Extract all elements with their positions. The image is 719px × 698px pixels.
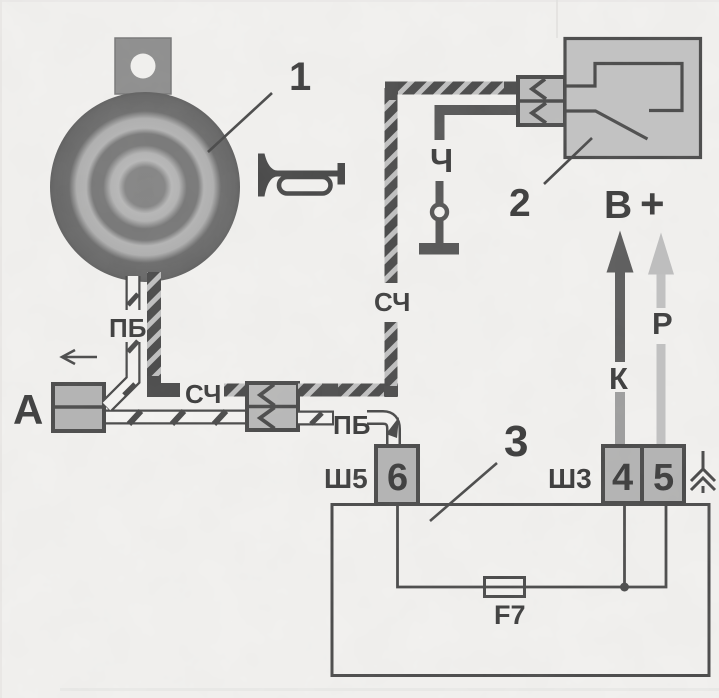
label 3 pointer line [430, 463, 497, 521]
switch moving contact line [565, 111, 648, 139]
wire СЧ vertical from horn [147, 272, 161, 383]
branch symbol (to other circuits) [691, 451, 715, 493]
label 2 pointer line [544, 138, 592, 184]
switch box 2 [565, 39, 701, 158]
scan edge left [0, 0, 2, 698]
wire СЧ corner + stub right [147, 376, 180, 390]
scan crease top right [556, 0, 558, 38]
wire СЧ riser lower [385, 322, 398, 386]
wire ПБ from A to middle connector [104, 341, 247, 424]
ground bolt circle [432, 205, 447, 220]
wire ПБ elbow to A (dark outline pass) [106, 342, 133, 407]
scan streak bottom [60, 688, 719, 691]
junction dot [620, 583, 629, 592]
horn icon [258, 154, 345, 197]
scan edge top [0, 0, 719, 2]
wire СЧ riser upper [385, 88, 398, 283]
pin 6 block [376, 446, 418, 504]
mounting block box 3 [332, 505, 709, 676]
fuse F7 [485, 578, 525, 597]
switch fixed contact line [565, 64, 682, 111]
wire Ч from switch connector [440, 110, 519, 140]
wire ПБ from middle connector to pin 6 [298, 413, 334, 424]
inner wire from fuse to pins 4/5 [524, 506, 666, 587]
wire ПБ hook into pin 6 [367, 417, 399, 447]
switch connector (at switch 2) [518, 77, 565, 125]
inner wire from pin 6 [398, 506, 485, 587]
inner wire up to pin 4 [623, 506, 626, 587]
arrow К to B+ [607, 231, 634, 447]
horn mounting bracket [115, 38, 171, 94]
connector A [53, 384, 104, 431]
horn body (component 1) [50, 92, 240, 282]
ground stem [436, 220, 444, 244]
label 1 pointer line [208, 93, 272, 152]
arrow Р to B+ [648, 233, 674, 447]
wire СЧ from middle connector to riser [298, 384, 386, 397]
ground wire lower [436, 181, 444, 205]
wire СЧ into middle connector [224, 384, 246, 397]
wire СЧ riser corner bottom [384, 383, 398, 397]
left arrow above A [62, 350, 97, 364]
ground bar [419, 243, 459, 255]
wire ПБ vertical from horn [128, 276, 138, 310]
pin 4 block [603, 446, 642, 503]
wire СЧ top run to switch connector [398, 82, 506, 95]
middle connector [247, 383, 298, 430]
wire СЧ top corner [385, 88, 402, 100]
pin 5 block [642, 446, 684, 503]
